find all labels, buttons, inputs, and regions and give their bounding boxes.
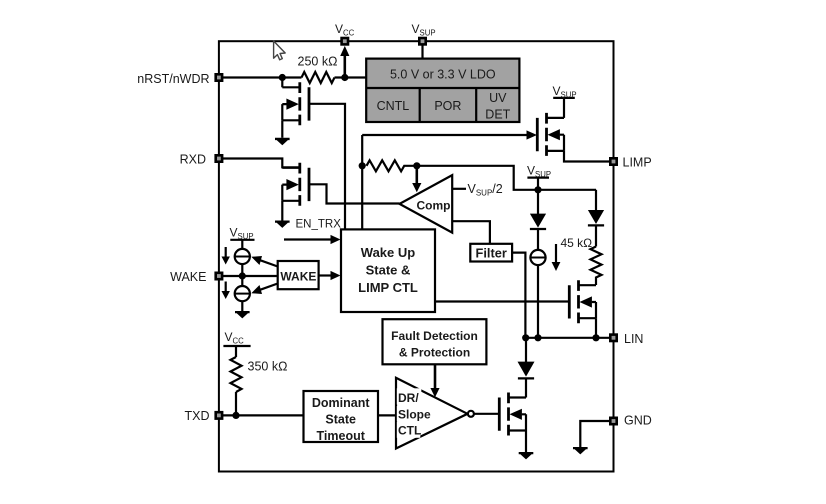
svg-text:WAKE: WAKE: [170, 270, 206, 284]
svg-text:DR/: DR/: [398, 391, 419, 405]
svg-text:CTL: CTL: [398, 424, 421, 438]
terminal WAKE: [216, 273, 222, 279]
svg-text:Fault Detection: Fault Detection: [391, 329, 478, 343]
svg-text:State: State: [325, 413, 356, 427]
wire comparator top feed: [417, 166, 596, 190]
ground under I3: [235, 311, 250, 318]
svg-text:LIMP CTL: LIMP CTL: [358, 280, 418, 295]
terminal nRST/nWDR: [216, 74, 222, 80]
ground at GND pin: [573, 447, 588, 454]
outer IC boundary box: [219, 41, 614, 471]
wire VSUP/2 stub: [452, 188, 466, 190]
node VSUP mid bar: [527, 177, 549, 179]
block Wake Up State & LIMP CTL: [341, 229, 435, 312]
wire WAKE line: [222, 275, 278, 277]
svg-text:350 kΩ: 350 kΩ: [248, 360, 288, 374]
ground under Q5: [519, 452, 534, 459]
svg-text:VSUP: VSUP: [230, 226, 254, 242]
svg-text:LIMP: LIMP: [623, 156, 652, 170]
current source I1: [530, 250, 545, 265]
arrow EN_TRX: [284, 238, 332, 240]
svg-text:Slope: Slope: [398, 407, 431, 421]
current arrow I3: [225, 282, 227, 293]
svg-text:Dominant: Dominant: [312, 396, 370, 410]
wire LIN to D3: [525, 338, 527, 362]
transistor Q2 (RXD NFET): [282, 163, 309, 206]
transistor Q3 (45k pull-up switch NFET): [569, 280, 596, 323]
terminal TXD: [216, 412, 222, 418]
resistor 350 kOhm: [231, 357, 242, 392]
svg-text:DET: DET: [485, 108, 510, 122]
svg-text:45 kΩ: 45 kΩ: [561, 236, 593, 250]
inverter bubble: [468, 411, 474, 417]
transistor Q1 (nRST pull-down NFET): [282, 82, 309, 125]
label DR/Slope CTL: [397, 388, 422, 404]
transistor Q4 (LIMP PFET switch): [537, 113, 564, 156]
block Dominant State Timeout: [304, 391, 379, 442]
svg-text:WAKE: WAKE: [280, 269, 316, 283]
svg-text:VCC: VCC: [335, 22, 355, 38]
ground under Q1: [275, 138, 290, 145]
current direction arrow: [555, 244, 557, 263]
current source I3: [235, 286, 250, 301]
wire Q4 drain to VSUP: [563, 98, 565, 118]
wire Q5 source to ground: [525, 431, 527, 453]
wire RXD: [222, 159, 300, 168]
wire VSUP to LDO: [421, 45, 423, 59]
resistor comparator input: [367, 160, 417, 171]
terminal VCC: [342, 38, 348, 44]
svg-text:VSUP/2: VSUP/2: [468, 182, 503, 198]
block WAKE: [278, 261, 319, 289]
wire M1 source to ground: [281, 120, 283, 138]
wire GND pin to ground: [580, 421, 609, 447]
node VSUP bar (WAKE): [230, 239, 254, 241]
svg-text:Wake Up: Wake Up: [361, 245, 415, 260]
svg-text:VSUP: VSUP: [553, 84, 577, 100]
diode D3: [518, 362, 535, 377]
arrowhead to VCC: [340, 46, 349, 56]
wire bubble to Q5 gate: [474, 413, 499, 415]
transistor Q5 (LIN output driver NFET): [499, 393, 526, 436]
wire LIN bus: [526, 337, 609, 339]
diode D1: [530, 214, 546, 228]
buffer DR/Slope CTL: [396, 378, 468, 449]
svg-text:EN_TRX: EN_TRX: [296, 219, 342, 231]
wire Q3 source to LIN: [595, 318, 597, 338]
svg-text:State &: State &: [366, 262, 411, 277]
wire filter to LIN: [512, 253, 525, 338]
wire I3 to ground: [241, 301, 243, 311]
arrow WAKE to WakeUp block: [319, 274, 332, 276]
diode D2: [595, 190, 597, 211]
ground under Q2: [275, 221, 290, 228]
terminal LIN: [610, 335, 616, 341]
svg-text:RXD: RXD: [180, 153, 206, 167]
svg-text:Comp: Comp: [417, 198, 451, 212]
terminal RXD: [216, 155, 222, 161]
resistor 250 kOhm: [302, 72, 335, 83]
wire VCC arrow stem: [343, 53, 346, 78]
svg-text:TXD: TXD: [185, 409, 210, 423]
wire Q2 source to ground: [281, 201, 283, 221]
mouse cursor: [274, 41, 286, 60]
svg-text:GND: GND: [624, 414, 652, 428]
svg-text:nRST/nWDR: nRST/nWDR: [137, 72, 209, 86]
junction node dots: [279, 74, 286, 81]
current source I2: [235, 249, 250, 264]
block Fault Detection & Protection: [383, 319, 487, 364]
svg-text:5.0 V or 3.3 V LDO: 5.0 V or 3.3 V LDO: [390, 68, 496, 82]
wire comparator feed vertical: [361, 135, 363, 229]
wire Q1 gate to WakeUp block: [309, 104, 345, 230]
node VSUP bar over Q4: [553, 97, 575, 99]
svg-text:VSUP: VSUP: [412, 22, 436, 38]
svg-text:VSUP: VSUP: [527, 164, 551, 180]
arrow into comparator: [415, 166, 418, 184]
arrow WAKE to I2: [259, 260, 278, 267]
wire VSUP to I2: [241, 240, 243, 249]
svg-text:UV: UV: [489, 91, 507, 105]
LDO block: [366, 59, 519, 122]
node VCC bar: [223, 345, 250, 347]
comparator U1 Comp: [400, 175, 453, 233]
wire comp output to filter: [452, 221, 490, 244]
svg-text:Filter: Filter: [476, 245, 507, 260]
wire 350k to TXD: [235, 346, 237, 415]
arrow WAKE to I3: [259, 284, 278, 291]
svg-text:250 kΩ: 250 kΩ: [298, 54, 338, 68]
svg-text:LIN: LIN: [624, 332, 643, 346]
terminal LIMP: [610, 158, 616, 164]
wire nRST horizontal: [222, 76, 366, 78]
terminal VSUP: [419, 38, 425, 44]
resistor 45 kOhm: [591, 247, 602, 286]
svg-text:CNTL: CNTL: [377, 99, 410, 113]
wire I1 to LIN: [537, 265, 539, 338]
current arrow I2: [225, 247, 227, 258]
svg-text:& Protection: & Protection: [399, 345, 470, 359]
wire Q4 source to LIMP pin: [564, 151, 609, 162]
svg-text:POR: POR: [434, 99, 461, 113]
block Filter: [470, 244, 512, 262]
wire TXD line: [222, 414, 396, 416]
arrowhead into LIMP FET gate: [527, 130, 538, 139]
terminal GND: [610, 418, 616, 424]
wire VSUP bar to rail: [537, 178, 539, 215]
wire I2 to I3: [241, 264, 243, 286]
wire Q3 gate from WakeUp block: [435, 300, 569, 302]
wire M1 drain: [281, 78, 283, 88]
arrow Fault block to buffer: [434, 364, 437, 389]
svg-text:VCC: VCC: [225, 330, 245, 346]
wire LIMP gate line: [362, 134, 527, 136]
wire Q2 gate from comparator output: [309, 184, 400, 203]
svg-text:Timeout: Timeout: [317, 429, 366, 443]
